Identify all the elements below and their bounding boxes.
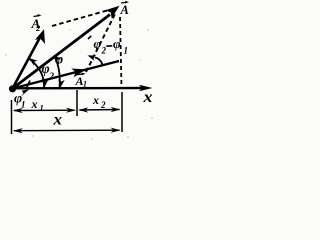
vertical dashed projection line from A tip to x-axis [120, 17, 122, 88]
angle arc phi2 [29, 59, 44, 88]
svg-text:2: 2 [49, 71, 55, 81]
angle arc phi [54, 56, 60, 88]
label A1 [75, 73, 88, 89]
dimension tick middle (x1 end) [76, 90, 78, 116]
label phi2 [42, 62, 55, 81]
svg-text:1: 1 [83, 80, 87, 89]
label x2 [92, 93, 106, 110]
dimension line x1 [13, 108, 76, 114]
svg-text:1: 1 [124, 46, 129, 56]
dimension tick left (origin) [11, 100, 13, 134]
label A [120, 1, 130, 17]
dashed line from A1 tip to A tip (parallel to A2) [86, 12, 116, 72]
angle arc phi2-phi1 [95, 58, 103, 65]
arc phi2-phi1 arrowhead [88, 55, 97, 60]
svg-text:φ: φ [94, 36, 102, 51]
svg-text:2: 2 [100, 100, 106, 110]
x-axis [11, 85, 153, 92]
svg-text:1: 1 [21, 100, 26, 110]
arc phi2 top arrowhead [29, 58, 38, 66]
label x1 [31, 97, 44, 113]
svg-text:φ: φ [42, 62, 50, 77]
vector A1 arrowhead [71, 68, 86, 77]
arc phi top arrowhead [54, 55, 62, 63]
resultant vector A arrowhead [105, 6, 119, 19]
arc phi2 bottom arrowhead [42, 79, 48, 88]
origin node O [9, 85, 16, 92]
svg-text:1: 1 [40, 103, 44, 113]
svg-text:φ: φ [113, 36, 121, 51]
stray scan dash above phi2-phi1 label [88, 36, 91, 39]
label phi2 - phi1 [94, 36, 129, 56]
vector A2 arrowhead [35, 29, 45, 44]
label phi1 [14, 92, 26, 110]
vector A1 shaft and extension [13, 61, 120, 89]
svg-text:2: 2 [101, 46, 107, 56]
vector A2 shaft [13, 36, 42, 89]
scan speckles [5, 29, 152, 140]
dimension tick right (x end) [121, 92, 123, 132]
svg-text:φ: φ [55, 53, 63, 68]
dashed line from A2 tip to A tip (parallel to A1) [52, 11, 107, 27]
dimension line x (total) [13, 128, 121, 134]
resultant vector A shaft [13, 15, 111, 89]
dimension line x2 [78, 107, 120, 113]
svg-text:x: x [31, 97, 38, 111]
svg-text:2: 2 [35, 23, 41, 33]
arc phi1 arrowhead [21, 89, 29, 97]
angle arc phi1 [27, 81, 31, 89]
svg-text:x: x [92, 93, 99, 107]
label A2 [31, 14, 42, 33]
svg-text:x: x [142, 89, 152, 106]
arc phi bottom arrowhead [58, 79, 64, 88]
svg-text:x: x [52, 112, 62, 129]
svg-text:A: A [120, 3, 129, 17]
